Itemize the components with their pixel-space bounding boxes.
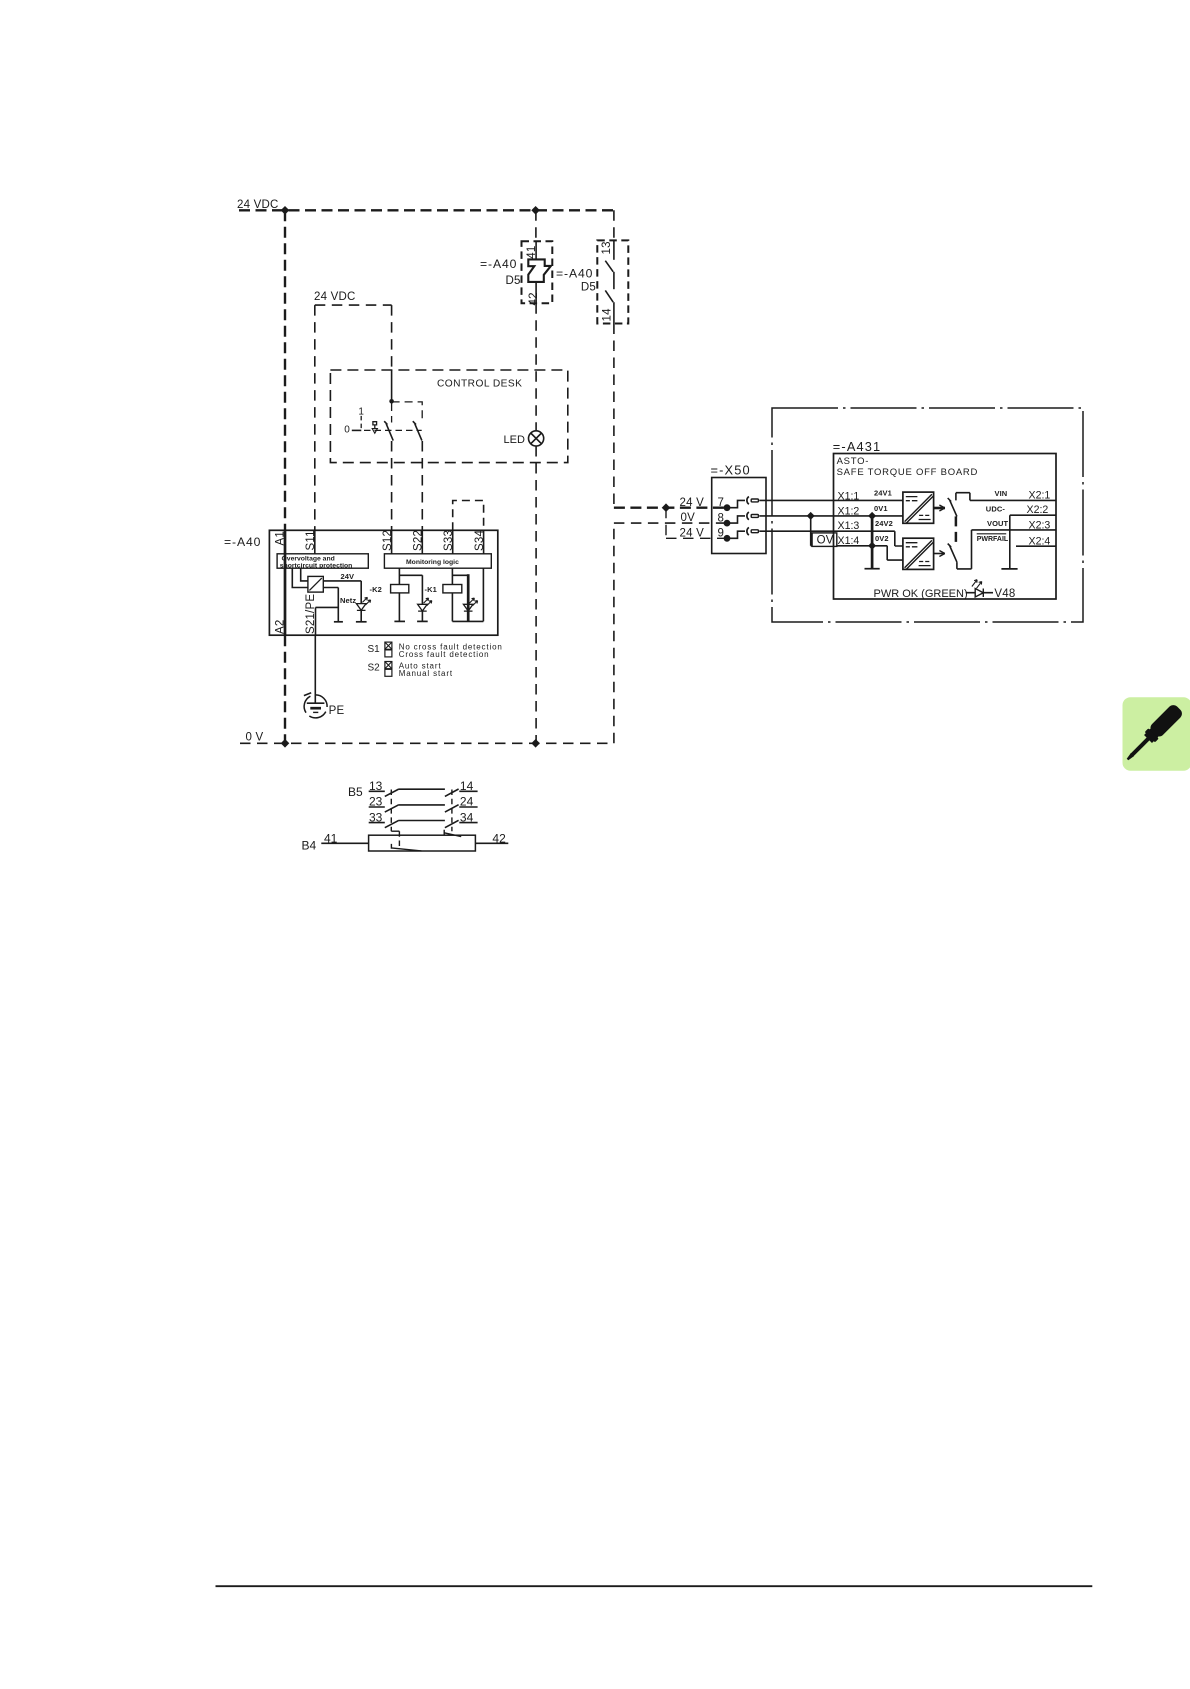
wire drop to relay coil D5: [535, 210, 537, 241]
wire S11 feed drop: [314, 305, 316, 530]
contact B4 41-42 body: [369, 835, 476, 851]
wire VIN to X2:1: [970, 499, 1056, 501]
wire contact pin 14 stub: [613, 302, 615, 323]
switch channel 1 blade: [948, 498, 957, 516]
ground bar (0V bus): [865, 568, 880, 570]
led K2: [418, 604, 428, 611]
svg-text:D5: D5: [506, 275, 521, 287]
svg-text:-K1: -K1: [425, 585, 437, 594]
wire coil pin 42 stub: [535, 282, 537, 303]
svg-text:42: 42: [528, 292, 540, 305]
svg-text:9: 9: [718, 528, 725, 540]
wire to pole 1 (dashed): [391, 403, 393, 423]
wire pin 9 jog: [727, 531, 745, 538]
svg-text:X2:1: X2:1: [1029, 489, 1051, 501]
wire S11 stub: [314, 530, 316, 554]
wire dc/dc2 output (arrow): [934, 553, 945, 555]
wire A2 to 0V rail: [284, 635, 286, 743]
svg-text:Monitoring logic: Monitoring logic: [406, 559, 459, 566]
wire branch to K1 LED (bold): [452, 574, 468, 576]
svg-text:S1: S1: [368, 644, 381, 655]
wire contact 14 down to X50 feed corner: [613, 324, 615, 508]
svg-text:=-A40: =-A40: [224, 535, 261, 549]
svg-text:Netz: Netz: [340, 596, 356, 605]
connector pin 7: [747, 497, 749, 505]
svg-text:X1:3: X1:3: [838, 520, 860, 532]
wire contact pin 13 stub: [613, 240, 615, 259]
switch channel 2 blade: [948, 544, 957, 563]
svg-text:8: 8: [718, 513, 725, 525]
switch knob indicator (square + arrow): [373, 422, 377, 429]
wire drop to contact 13: [613, 210, 615, 240]
connector pin 8: [747, 512, 749, 520]
wire A1-A2 bus (bold): [284, 530, 287, 635]
wire dc/dc1 output (bold, arrow): [934, 507, 945, 510]
svg-text:=-A431: =-A431: [833, 439, 882, 454]
wire 24VDC top rail: [239, 209, 614, 211]
wire S22 stub: [421, 530, 423, 554]
svg-text:13: 13: [601, 241, 613, 254]
enclosure boundary (dash-dot): [772, 408, 1083, 622]
wire K2 LED to ground: [421, 611, 423, 621]
wire 42: [475, 842, 508, 844]
wire 0V2 to dc/dc 2: [872, 546, 903, 560]
node pin 9: [724, 535, 731, 542]
svg-text:24V1: 24V1: [874, 488, 892, 497]
wire K1 return rail to monitoring logic: [452, 568, 483, 621]
svg-text:24 V: 24 V: [680, 527, 705, 539]
wire overvoltage out 1: [301, 568, 308, 581]
svg-text:shortcircuit protection: shortcircuit protection: [280, 562, 353, 569]
svg-text:24V2: 24V2: [875, 519, 893, 528]
wire pin 7 jog: [727, 500, 745, 507]
wire coil pin 41 stub: [535, 241, 537, 259]
wire UDC- to ground: [1010, 515, 1056, 569]
wire Netz LED to ground: [360, 610, 362, 621]
node switch feed junction: [389, 399, 394, 404]
svg-text:LED: LED: [504, 434, 525, 446]
wire X50 to X1:1 (24V1): [759, 499, 903, 501]
jumper S1 position b (unchecked): [385, 650, 392, 657]
wire 0V rail: [240, 742, 614, 744]
block monitoring logic: [384, 554, 491, 568]
junction 0V2 bus: [868, 542, 876, 550]
node pin 7: [724, 504, 731, 511]
wire S21/PE stub inside box: [315, 607, 317, 635]
relay coil D5 (Z symbol): [528, 259, 551, 282]
wire 24V feed to X50 (bold dashed): [614, 507, 727, 509]
wire coil D5 to control desk (through LED): [535, 303, 537, 431]
wire 24V to Netz LED: [323, 581, 361, 604]
svg-text:24 V: 24 V: [680, 497, 705, 509]
ground bar (UDC-): [1001, 568, 1017, 570]
svg-text:X2:3: X2:3: [1029, 520, 1051, 532]
wire X50 to X1:3 (24V2): [759, 531, 903, 546]
dc/dc converter 2: [903, 538, 934, 569]
wire channel 2 to VOUT: [957, 530, 972, 569]
wire S12 drop below switch: [391, 441, 393, 530]
wire S21/PE to earth: [314, 635, 316, 703]
svg-text:0V: 0V: [681, 512, 696, 524]
svg-text:PE: PE: [329, 705, 345, 717]
svg-text:X1:2: X1:2: [838, 505, 860, 517]
svg-text:X1:1: X1:1: [838, 490, 860, 502]
junction 0V rail / A2 drop: [281, 739, 290, 748]
junction 0V rail / LED drop: [531, 739, 540, 748]
ground bar (Netz LED): [356, 621, 367, 623]
wire 24V branch to pin 9: [666, 508, 727, 539]
junction 0V tap: [807, 512, 815, 520]
jumper S1 position a (checked): [385, 642, 392, 649]
svg-text:7: 7: [718, 497, 725, 509]
service icon screwdriver: [1122, 703, 1184, 765]
svg-text:-K2: -K2: [370, 585, 382, 594]
wire 24VDC drop to A40 pin A1: [284, 210, 286, 530]
jumper S2 position b (unchecked): [385, 669, 392, 676]
svg-text:Manual start: Manual start: [399, 669, 453, 678]
svg-text:OV: OV: [817, 535, 834, 547]
wire internal 0V bus (bold): [871, 516, 874, 569]
board ASTO outline: [834, 454, 1057, 600]
switch position 0 stub: [352, 429, 362, 431]
svg-text:B5: B5: [348, 785, 363, 799]
svg-text:0: 0: [344, 424, 350, 435]
wire branch to K2 LED: [399, 575, 422, 604]
svg-text:X2:4: X2:4: [1029, 535, 1051, 547]
svg-text:X1:4: X1:4: [838, 535, 860, 547]
svg-text:1: 1: [358, 406, 364, 417]
wire X50 to X1:2 (0V1): [759, 515, 903, 517]
S33/S34 jumper (dashed): [453, 501, 484, 531]
svg-text:VIN: VIN: [995, 489, 1008, 498]
svg-text:=-X50: =-X50: [711, 463, 751, 478]
svg-text:S2: S2: [368, 662, 381, 673]
led K1: [463, 604, 473, 611]
mechanical link right (dashed): [451, 790, 453, 832]
wire overvoltage out 2: [292, 568, 308, 587]
contact blade 13 upper: [605, 261, 613, 272]
svg-text:UDC-: UDC-: [986, 505, 1006, 514]
wire S21/PE link: [316, 606, 339, 608]
ground PE symbol: [307, 702, 325, 704]
relay coil =-A40 D5 dashed enclosure: [522, 241, 553, 303]
junction 24VDC rail / coil drop: [531, 206, 540, 215]
svg-text:B4: B4: [302, 838, 317, 852]
mechanical link left (dashed): [390, 790, 392, 832]
label box OV: [812, 533, 837, 547]
switch pole 1 blade: [384, 421, 393, 440]
led V48: [966, 592, 993, 594]
svg-text:PWR OK (GREEN): PWR OK (GREEN): [874, 588, 968, 600]
wire S12 stub: [391, 530, 393, 554]
contact B4 NC blade (inner): [391, 844, 421, 851]
wire between contacts: [613, 272, 615, 289]
contact B4 NC blade (top edge): [444, 830, 461, 837]
earth electrode tick: [304, 693, 311, 696]
wire K2 feed from monitoring logic: [398, 568, 400, 584]
wire LED to 0V rail: [535, 446, 537, 743]
svg-text:0 V: 0 V: [246, 731, 264, 743]
svg-text:Cross fault detection: Cross fault detection: [399, 650, 490, 659]
footer rule: [216, 1585, 1093, 1587]
wire pin 8 jog: [727, 516, 745, 523]
dc/dc converter (A40): [308, 576, 323, 592]
wire K1 feed from monitoring logic: [451, 568, 453, 584]
wire switch feed drop (solid part): [391, 370, 393, 401]
ground bar (converter 0V): [334, 621, 343, 623]
contact blade 14 lower: [605, 290, 613, 302]
wire K1 to return rail: [451, 593, 453, 622]
svg-text:X2:2: X2:2: [1027, 504, 1049, 516]
switch pole 2 blade: [413, 421, 422, 440]
connector pin 9: [747, 527, 749, 535]
wire channel 1 to VIN (staple): [956, 493, 970, 501]
wire 24VDC control rail horizontal: [315, 304, 392, 306]
relay coil K2: [391, 585, 409, 593]
svg-text:=-A40: =-A40: [556, 266, 593, 280]
svg-text:0V1: 0V1: [874, 504, 888, 513]
wire VOUT to X2:3: [972, 529, 1057, 531]
wire S22 drop below switch: [421, 441, 423, 530]
wire jog to pole 2 (dashed): [392, 402, 423, 422]
dc/dc converter 1: [903, 492, 934, 523]
ground bar (K2 LED): [417, 620, 428, 622]
junction 24VDC rail / A1 drop: [281, 206, 290, 215]
junction 0V1 bus: [868, 512, 876, 520]
wire switch feed drop (dashed part): [391, 305, 393, 371]
svg-text:CONTROL DESK: CONTROL DESK: [437, 379, 522, 390]
LED indicator lamp: [529, 431, 544, 446]
svg-text:VOUT: VOUT: [987, 519, 1009, 528]
jumper S2 position a (checked): [385, 662, 392, 669]
svg-text:24 VDC: 24 VDC: [314, 291, 355, 303]
ground bar (K2): [394, 620, 405, 622]
wire K2 to ground: [398, 593, 400, 622]
svg-text:V48: V48: [994, 588, 1015, 600]
svg-text:0V2: 0V2: [875, 534, 889, 543]
node pin 8: [724, 520, 731, 527]
service icon background: [1123, 697, 1190, 771]
svg-text:24V: 24V: [341, 572, 355, 581]
block overvoltage and shortcircuit protection: [277, 554, 368, 568]
svg-text:D5: D5: [581, 282, 596, 294]
led Netz: [356, 604, 366, 611]
switch linkage horizontal (dashed): [364, 429, 422, 431]
junction 24V branch: [662, 503, 671, 512]
svg-text:ASTO-: ASTO-: [837, 456, 870, 467]
wire converter 0V to ground: [323, 588, 338, 622]
wire 0V riser to X50 pin 8: [614, 523, 727, 743]
wire S33 stub: [452, 530, 454, 554]
wire 0V tap to X1:4: [811, 516, 872, 546]
svg-text:14: 14: [601, 308, 613, 322]
control desk dashed enclosure: [330, 370, 567, 463]
svg-text:SAFE TORQUE OFF BOARD: SAFE TORQUE OFF BOARD: [837, 467, 979, 478]
relay coil K1: [443, 585, 462, 593]
auxiliary contact =-A40 D5 dashed enclosure: [597, 240, 628, 323]
switch position 1 linkage (dashed): [360, 416, 362, 430]
wire X2:4 stub: [1016, 545, 1056, 547]
wire S34 stub: [483, 530, 485, 554]
svg-text:PWRFAIL: PWRFAIL: [977, 536, 1009, 543]
wire 41: [321, 842, 368, 844]
mechanical link channel1-channel2 (bold dashed): [955, 516, 958, 546]
device =-A40 safety relay outline: [269, 530, 497, 635]
terminal block =-X50 outline: [712, 478, 766, 554]
svg-text:=-A40: =-A40: [480, 257, 517, 271]
